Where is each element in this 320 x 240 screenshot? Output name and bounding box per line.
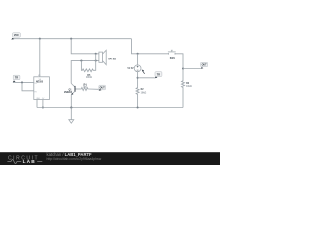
svg-text:LAB: LAB xyxy=(23,159,36,165)
ground xyxy=(69,106,74,123)
wire speaker bottom / collector riser xyxy=(71,61,99,84)
wire bottom rail xyxy=(37,107,183,109)
junction emitter to rail xyxy=(70,106,72,108)
junction OUT branch xyxy=(182,67,184,69)
junction R5 left xyxy=(80,60,82,62)
junction R5 riser top xyxy=(95,53,97,55)
svg-text:NE555: NE555 xyxy=(36,81,44,83)
voltage source V1 xyxy=(127,65,144,74)
wire base to flag xyxy=(89,88,99,90)
svg-text:R2: R2 xyxy=(141,89,145,91)
svg-text:http://circuitlab.com/c/2y9f6a: http://circuitlab.com/c/2y9f6aa4phsw xyxy=(47,157,102,161)
speaker SP1 xyxy=(99,50,116,64)
junction TRIG branch xyxy=(137,77,139,79)
junction speaker branch xyxy=(70,38,72,40)
logo waveform xyxy=(7,159,21,163)
wire V1 bottom lead xyxy=(137,72,139,87)
wire V1 top lead xyxy=(137,54,139,65)
wire OUT branch xyxy=(183,68,201,70)
svg-text:TR: TR xyxy=(15,77,18,80)
node VCC flag xyxy=(11,33,20,40)
wire R2 to rail xyxy=(137,95,139,108)
wire rail right corner xyxy=(132,39,169,54)
node OUT flag at base xyxy=(99,85,106,91)
node OUT flag right xyxy=(201,62,208,69)
wire speaker top feed xyxy=(71,39,99,54)
resistor R3 xyxy=(182,81,192,89)
junction V1 drop xyxy=(137,53,139,55)
junction R2 rail xyxy=(137,106,139,108)
junction 555 VCC drop xyxy=(39,38,41,40)
wire switch to right corner xyxy=(175,54,183,81)
resistor R4 xyxy=(81,83,89,90)
wire 555 VCC drop xyxy=(39,39,41,77)
resistor R5 xyxy=(81,54,95,79)
wire TRIG branch xyxy=(138,77,155,79)
wire R3 to rail corner xyxy=(182,88,184,108)
node TRIG flag left xyxy=(13,75,20,82)
svg-text:10kΩ: 10kΩ xyxy=(141,92,147,94)
wire 555 ground pin xyxy=(36,100,38,108)
svg-text:SP1 8Ω: SP1 8Ω xyxy=(108,59,116,61)
svg-text:2N3904: 2N3904 xyxy=(64,91,73,94)
junction R5 riser mid xyxy=(95,60,97,62)
resistor R2 xyxy=(136,87,146,95)
svg-text:OUT: OUT xyxy=(202,64,208,67)
wire 555 threshold pin xyxy=(13,81,34,83)
svg-text:1kΩ: 1kΩ xyxy=(83,87,88,89)
svg-text:R3: R3 xyxy=(186,83,190,85)
footer bar xyxy=(0,152,220,165)
switch SW1 xyxy=(168,50,176,60)
node TRIG flag right xyxy=(155,72,162,79)
svg-text:TR: TR xyxy=(157,73,160,76)
svg-text:SW1: SW1 xyxy=(170,58,176,60)
IC U1 555 timer box xyxy=(34,75,50,100)
arrow marker at V1 xyxy=(143,71,145,74)
junction jog tee xyxy=(21,81,23,83)
wire 555 trigger pin jog xyxy=(22,82,34,90)
svg-text:10kΩ: 10kΩ xyxy=(186,86,192,88)
wire base lead xyxy=(76,88,81,90)
svg-text:V1 5V: V1 5V xyxy=(127,68,134,70)
svg-text:100Ω: 100Ω xyxy=(86,76,92,79)
wire top VCC rail xyxy=(12,38,131,40)
transistor Q1 xyxy=(64,83,76,107)
wire 555 control pin xyxy=(42,100,44,108)
svg-text:VCC: VCC xyxy=(14,34,19,37)
svg-text:OUT: OUT xyxy=(100,87,106,90)
junction control to rail xyxy=(42,106,44,108)
